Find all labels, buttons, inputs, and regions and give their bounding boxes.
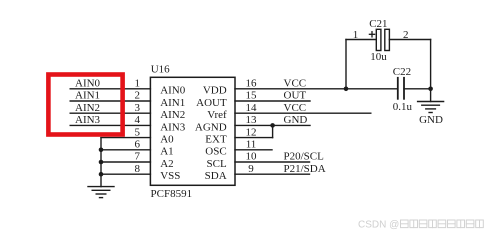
net label VCC (pin 14) xyxy=(284,102,307,114)
wire pin 12 to pin 13 vertical xyxy=(272,125,274,137)
svg-text:SDA: SDA xyxy=(205,170,227,182)
pin 4 number xyxy=(134,114,140,126)
svg-text:7: 7 xyxy=(134,151,140,163)
GND net label xyxy=(419,114,443,126)
svg-text:4: 4 xyxy=(134,114,140,126)
pin 7 number xyxy=(134,151,140,163)
pin 15 label AOUT xyxy=(196,97,227,109)
pin 12 EXT wire xyxy=(235,137,273,139)
svg-text:11: 11 xyxy=(246,139,257,151)
svg-text:1: 1 xyxy=(353,29,359,41)
pin 9 label SDA xyxy=(205,170,227,182)
pin 13 AGND wire (GND net) xyxy=(235,124,310,126)
svg-text:AIN1: AIN1 xyxy=(160,97,185,109)
pin 6 number xyxy=(134,139,140,151)
capacitor C21 (polarized) xyxy=(376,29,389,50)
pin 11 OSC wire xyxy=(235,149,272,151)
net label OUT xyxy=(284,90,307,102)
svg-text:AIN2: AIN2 xyxy=(160,109,185,121)
svg-text:10: 10 xyxy=(246,151,258,163)
pin 16 label VDD xyxy=(203,85,227,97)
svg-text:GND: GND xyxy=(284,114,308,126)
svg-text:VCC: VCC xyxy=(284,102,307,114)
pin 4 label AIN3 xyxy=(160,121,186,133)
svg-text:SCL: SCL xyxy=(207,158,227,170)
svg-text:AIN2: AIN2 xyxy=(75,102,100,114)
net label AIN2 xyxy=(75,102,100,114)
svg-text:2: 2 xyxy=(134,90,140,102)
junction pin 6 bus xyxy=(99,148,104,153)
svg-text:10u: 10u xyxy=(370,51,387,63)
junction GND branch xyxy=(428,87,433,92)
pin 2 label AIN1 xyxy=(160,97,185,109)
svg-text:CSDN @: CSDN @ xyxy=(358,220,399,231)
pin 8 VSS wire xyxy=(101,173,150,175)
junction pin 7 bus xyxy=(99,160,104,165)
wire C21 right vertical xyxy=(430,40,432,89)
svg-text:P21/SDA: P21/SDA xyxy=(284,163,326,175)
svg-text:U16: U16 xyxy=(151,64,170,76)
svg-text:3: 3 xyxy=(134,102,140,114)
C21 designator xyxy=(369,18,387,30)
svg-text:14: 14 xyxy=(246,102,258,114)
capacitor C22 xyxy=(398,78,404,99)
pin 3 number xyxy=(134,102,140,114)
wire C21 left vertical xyxy=(345,40,347,89)
svg-text:AIN1: AIN1 xyxy=(75,90,100,102)
annotation highlight box (red) xyxy=(48,75,122,135)
svg-text:9: 9 xyxy=(248,163,254,175)
svg-text:OUT: OUT xyxy=(284,90,307,102)
pin 10 number xyxy=(246,151,258,163)
pin 10 label SCL xyxy=(207,158,227,170)
IC U16 body xyxy=(150,77,235,185)
svg-text:AIN0: AIN0 xyxy=(160,85,186,97)
pin 14 label Vref xyxy=(207,109,227,121)
svg-text:15: 15 xyxy=(246,90,258,102)
net label AIN1 xyxy=(75,90,100,102)
pin 9 SDA wire (P21/SDA net) xyxy=(235,173,310,175)
wire C21 left horizontal xyxy=(346,39,376,41)
pin 13 label AGND xyxy=(195,121,227,133)
C22 designator xyxy=(393,66,411,78)
pin 15 AOUT wire (OUT net) xyxy=(235,100,310,102)
C21 value 10u xyxy=(370,51,387,63)
wire GND stem xyxy=(430,89,432,102)
net label P20/SCL xyxy=(284,151,325,163)
ground symbol (right) xyxy=(418,102,444,113)
net label AIN0 xyxy=(75,78,101,90)
net label VCC (pin 16) xyxy=(284,78,307,90)
svg-text:EXT: EXT xyxy=(205,134,227,146)
svg-text:VSS: VSS xyxy=(160,170,180,182)
net label AIN3 xyxy=(75,114,101,126)
pin 3 AIN2 wire xyxy=(70,112,150,114)
svg-text:C21: C21 xyxy=(369,18,387,30)
pin 11 label OSC xyxy=(205,146,226,158)
pin 5 label A0 xyxy=(160,134,174,146)
svg-text:0.1u: 0.1u xyxy=(393,101,413,113)
pin 9 number xyxy=(248,163,254,175)
pin 8 label VSS xyxy=(160,170,180,182)
wire C21 right horizontal xyxy=(389,39,430,41)
pin 2 AIN1 wire xyxy=(70,100,150,102)
pin 14 number xyxy=(246,102,258,114)
svg-text:16: 16 xyxy=(246,78,258,90)
pin 5 A0 wire xyxy=(101,137,150,139)
svg-text:AIN0: AIN0 xyxy=(75,78,101,90)
pin 2 number xyxy=(134,90,140,102)
C22 value 0.1u xyxy=(393,101,413,113)
svg-text:AGND: AGND xyxy=(195,121,227,133)
svg-text:AOUT: AOUT xyxy=(196,97,227,109)
svg-text:A0: A0 xyxy=(160,134,174,146)
svg-text:VDD: VDD xyxy=(203,85,227,97)
net label GND (pin 13) xyxy=(284,114,308,126)
ground bus vertical wire (pins 5-8) xyxy=(100,138,102,187)
pin 4 AIN3 wire xyxy=(70,124,150,126)
pin 7 label A2 xyxy=(160,158,173,170)
svg-text:OSC: OSC xyxy=(205,146,226,158)
svg-text:6: 6 xyxy=(134,139,140,151)
svg-text:VCC: VCC xyxy=(284,78,307,90)
pin 7 A2 wire xyxy=(101,161,150,163)
svg-text:12: 12 xyxy=(246,126,257,138)
watermark CSDN xyxy=(358,220,483,231)
net label P21/SDA xyxy=(284,163,326,175)
C21 pin number 1 xyxy=(353,29,359,41)
pin 3 label AIN2 xyxy=(160,109,185,121)
IC part number PCF8591 xyxy=(151,188,193,200)
pin 12 number xyxy=(246,126,257,138)
svg-text:5: 5 xyxy=(134,126,140,138)
wire C22 right to GND xyxy=(404,88,431,90)
C21 pin number 2 xyxy=(403,29,409,41)
IC designator U16 xyxy=(151,64,170,76)
pin 11 number xyxy=(246,139,257,151)
pin 13 number xyxy=(246,114,258,126)
svg-text:13: 13 xyxy=(246,114,258,126)
junction VCC / C21 branch xyxy=(344,87,349,92)
pin 6 A1 wire xyxy=(101,149,150,151)
junction pin 13 xyxy=(270,123,275,128)
svg-text:A2: A2 xyxy=(160,158,173,170)
pin 12 label EXT xyxy=(205,134,227,146)
svg-text:C22: C22 xyxy=(393,66,411,78)
pin 1 AIN0 wire xyxy=(70,88,150,90)
pin 1 number xyxy=(134,78,140,90)
pin 15 number xyxy=(246,90,258,102)
pin 8 number xyxy=(134,163,140,175)
svg-text:P20/SCL: P20/SCL xyxy=(284,151,325,163)
junction pin 8 bus xyxy=(99,172,104,177)
svg-text:1: 1 xyxy=(134,78,140,90)
pin 6 label A1 xyxy=(160,146,173,158)
pin 10 SCL wire (P20/SCL net) xyxy=(235,161,310,163)
pin 16 number xyxy=(246,78,258,90)
pin 16 VDD wire (VCC net) xyxy=(235,88,397,90)
pin 5 number xyxy=(134,126,140,138)
svg-text:AIN3: AIN3 xyxy=(160,121,186,133)
svg-text:AIN3: AIN3 xyxy=(75,114,101,126)
pin 1 label AIN0 xyxy=(160,85,186,97)
svg-text:GND: GND xyxy=(419,114,443,126)
svg-text:Vref: Vref xyxy=(207,109,227,121)
svg-text:A1: A1 xyxy=(160,146,173,158)
svg-text:8: 8 xyxy=(134,163,140,175)
svg-text:PCF8591: PCF8591 xyxy=(151,188,193,200)
pin 14 Vref wire (VCC net) xyxy=(235,112,371,114)
ground symbol (left) xyxy=(88,187,114,198)
C21 polarity plus sign xyxy=(369,32,374,37)
